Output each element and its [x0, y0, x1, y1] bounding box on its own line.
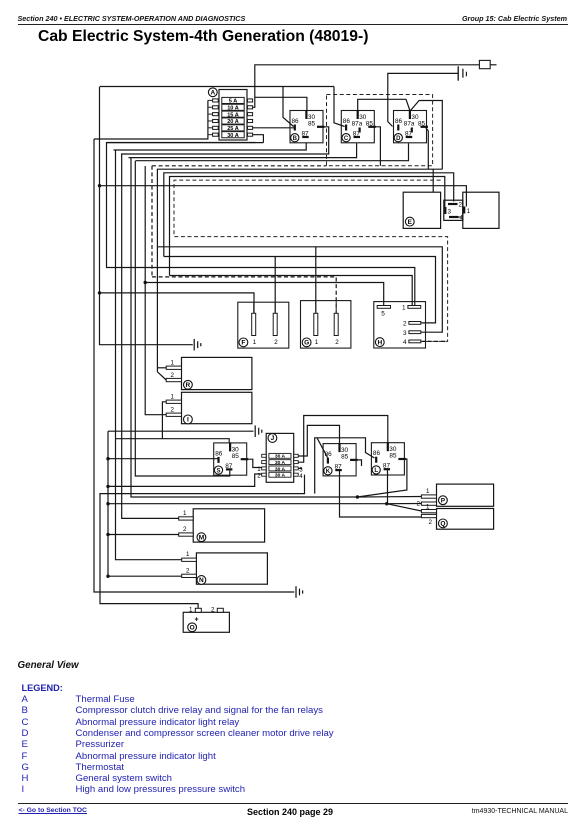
wire relay K 85 stub [354, 460, 362, 466]
wire relay S 85 to fuse J [246, 459, 262, 467]
wire fuse J row1 to relay K 30 [298, 425, 339, 456]
wire node to pressurizer pin 1 [100, 186, 467, 207]
junction switch H pin 5 feed [144, 281, 147, 284]
svg-text:O: O [190, 625, 195, 632]
wire bus v7b to pressure switch I pin 2 [145, 166, 166, 415]
wire I pin 1 to relay S 30 line [162, 402, 166, 439]
svg-text:85: 85 [308, 121, 316, 128]
wire R pin 2 diagonal [157, 372, 166, 380]
svg-text:2: 2 [274, 339, 278, 346]
junction on rail to pin 1 [98, 184, 101, 187]
svg-text:G: G [304, 340, 309, 347]
wire top rail to relay coils [100, 86, 334, 88]
wire loop v9 pressurizer pin 2 and H2 [164, 173, 454, 257]
wire bus v3b common [108, 431, 182, 576]
svg-text:I: I [187, 417, 189, 424]
relay S [214, 442, 249, 475]
svg-text:3: 3 [403, 330, 407, 337]
relay C [341, 110, 376, 143]
svg-text:30 A: 30 A [275, 466, 286, 472]
node label Q [439, 519, 448, 528]
svg-text:1: 1 [253, 339, 257, 346]
wire relay K 87 to Q2 [340, 470, 422, 517]
svg-text:1: 1 [189, 607, 193, 614]
node label P [439, 496, 448, 505]
svg-text:1: 1 [171, 394, 175, 401]
svg-text:85: 85 [389, 453, 397, 460]
wire relay B 87 output [114, 143, 307, 150]
wire feed H pin 3 [157, 247, 442, 332]
wire battery lower feed [388, 73, 458, 126]
wire fuse J row4 left [108, 474, 262, 486]
resistor unit I [182, 392, 252, 423]
relay K [323, 443, 358, 476]
svg-text:25 A: 25 A [227, 126, 239, 132]
wire bus vO fuse J row4 to battery O [100, 475, 305, 609]
svg-text:2: 2 [183, 526, 187, 533]
junction P feed [356, 495, 359, 498]
wire relay L 87 drop [387, 470, 389, 504]
svg-text:2: 2 [335, 339, 339, 346]
svg-text:2: 2 [403, 321, 407, 328]
svg-text:30 A: 30 A [275, 454, 286, 460]
svg-text:87: 87 [302, 131, 310, 138]
wire relay C 87 output [129, 143, 357, 157]
svg-text:3: 3 [448, 209, 452, 216]
svg-text:87a: 87a [404, 121, 415, 128]
svg-text:2: 2 [459, 202, 463, 209]
pressurizer E connector [444, 200, 463, 220]
resistor unit R [182, 357, 252, 389]
wire loop v10 pressurizer pin 3 and H1 [170, 177, 445, 276]
svg-text:20 A: 20 A [227, 119, 239, 125]
fan motor M [193, 509, 264, 542]
svg-text:+: + [195, 617, 199, 624]
svg-text:30 A: 30 A [275, 473, 286, 479]
svg-text:85: 85 [366, 121, 374, 128]
svg-text:15 A: 15 A [227, 112, 239, 118]
node label G [302, 338, 311, 347]
svg-text:30 A: 30 A [275, 460, 286, 466]
wire harness dashed segment to C D box [152, 165, 327, 167]
wire feed H pin 2 [164, 257, 436, 323]
pressurizer E housing [403, 192, 440, 228]
svg-text:Q: Q [440, 521, 445, 528]
wire common to Q [108, 504, 421, 511]
thermostat G [301, 301, 351, 349]
svg-text:C: C [344, 136, 349, 142]
svg-text:4: 4 [403, 339, 407, 346]
relay B [290, 110, 325, 143]
svg-text:P: P [441, 497, 446, 504]
indicator light F [238, 302, 289, 348]
svg-text:86: 86 [292, 118, 300, 125]
wire K L coil feed [315, 438, 375, 494]
dashed harness box around relays C and D [327, 95, 433, 166]
svg-text:87: 87 [383, 463, 391, 470]
pins of P [417, 488, 437, 507]
wire bus v7 to relay S 87 [135, 161, 230, 476]
svg-text:D: D [396, 136, 401, 142]
wire R pin 1 [157, 367, 166, 369]
svg-text:S: S [216, 468, 220, 474]
ground by relay S [255, 425, 262, 437]
wire fuse J row3 right stub [298, 467, 302, 469]
wire relay S 30 feed line [116, 439, 230, 443]
svg-text:1: 1 [467, 208, 471, 215]
svg-text:2: 2 [171, 407, 175, 414]
svg-text:87a: 87a [352, 121, 363, 128]
svg-text:85: 85 [418, 121, 426, 128]
fuse box J [257, 433, 303, 482]
junction N pin 2 [106, 575, 109, 578]
svg-text:1: 1 [171, 360, 175, 367]
svg-text:86: 86 [343, 118, 351, 125]
svg-text:2: 2 [186, 567, 190, 574]
node label J [268, 434, 277, 443]
svg-text:L: L [374, 468, 378, 474]
general system switch H [374, 302, 426, 348]
junction common bus P [106, 502, 109, 505]
junction F feed [98, 291, 101, 294]
svg-text:1: 1 [183, 510, 187, 517]
node label O [188, 623, 197, 632]
svg-text:2: 2 [171, 372, 175, 379]
wire ground line of I [108, 430, 254, 432]
connector P body [437, 484, 494, 506]
svg-text:4: 4 [460, 215, 464, 222]
fan motor N [196, 553, 267, 584]
inner dashed harness boundary [174, 180, 448, 341]
node label M [197, 533, 206, 542]
wire harness dashed left drop [151, 166, 153, 277]
svg-text:2: 2 [211, 607, 215, 614]
wire fuse J row2 to relay L 30 [298, 416, 388, 463]
wire relay D 85 output [425, 127, 428, 169]
node label N [197, 576, 206, 585]
wire fuse box A left bus [94, 100, 208, 139]
wire feed G element 1 [315, 247, 317, 314]
junction M pin 2 [106, 533, 109, 536]
wire relay B 30 feed [255, 97, 307, 110]
pins of Q [421, 503, 436, 526]
wire bus v6 to connector P line [131, 158, 357, 497]
wire relay C coil feed [334, 87, 345, 127]
svg-text:86: 86 [215, 450, 223, 457]
wire fuse box A output bus [107, 142, 256, 144]
svg-text:2: 2 [429, 519, 433, 526]
wire bus v5 to fan motor M pin 1 [122, 154, 179, 518]
svg-text:R: R [186, 382, 191, 389]
wire relay C and D 30 feed [358, 99, 410, 110]
svg-text:N: N [199, 577, 204, 584]
wire bus v4 to fan motor N pin 1 [116, 150, 182, 560]
wire feed F element 2 [274, 257, 276, 315]
wire bus v1 to cab ground [94, 139, 294, 592]
node label H [375, 338, 384, 347]
wire to connector P pin 1 [357, 496, 421, 499]
svg-text:10 A: 10 A [227, 105, 239, 111]
wire relay S 86 feed [108, 458, 219, 460]
wire feed H pin 5 [145, 283, 384, 306]
pressurizer E switch body [463, 192, 499, 228]
wire relay B 85 output [121, 127, 329, 154]
wire relay B coil feed [283, 87, 294, 127]
junction J row4 [106, 485, 109, 488]
battery BAT1 [458, 66, 466, 80]
svg-text:K: K [326, 469, 331, 475]
wire feed F element 1 [100, 293, 255, 314]
svg-text:1: 1 [186, 551, 190, 558]
wire harness dashed bottom to thermostat [152, 277, 336, 314]
svg-text:J: J [271, 435, 275, 442]
ground cab main [296, 586, 303, 598]
svg-text:85: 85 [341, 454, 349, 461]
svg-text:1: 1 [315, 339, 319, 346]
wire H pin 4 dashed [421, 340, 447, 342]
wire drop to pressurizer housing [432, 169, 434, 192]
relay L [371, 442, 406, 475]
svg-text:2: 2 [417, 500, 421, 507]
svg-text:86: 86 [395, 118, 403, 125]
node label E [405, 217, 414, 226]
svg-text:1: 1 [426, 503, 430, 510]
svg-text:4: 4 [299, 473, 303, 480]
fuse F main on battery rail [479, 60, 490, 68]
connector Q body [437, 509, 494, 530]
svg-text:1: 1 [426, 488, 430, 495]
wire battery rail after fuse [490, 64, 496, 66]
svg-text:5 A: 5 A [229, 99, 238, 105]
svg-text:A: A [210, 90, 215, 97]
wire loop v8 to pressurizer housing and R1 [157, 169, 442, 372]
svg-text:1: 1 [402, 305, 406, 312]
wire M pin 2 tap [108, 534, 179, 536]
svg-text:H: H [377, 339, 382, 346]
svg-text:86: 86 [373, 450, 381, 457]
junction Q feed [385, 502, 388, 505]
pins of N [182, 551, 197, 577]
svg-text:87: 87 [225, 463, 233, 470]
wire to connector P pin 2 [387, 503, 422, 505]
pins of M [179, 510, 194, 536]
svg-text:B: B [293, 136, 298, 142]
svg-text:M: M [199, 534, 204, 541]
wire relay D 87 output [136, 143, 409, 160]
relay D [394, 110, 429, 143]
wire fuse A row6 output hook [253, 135, 264, 143]
pins of R and I [166, 360, 181, 417]
svg-text:30 A: 30 A [227, 133, 239, 139]
node label A [208, 88, 217, 97]
wire relay C 85 output [373, 127, 380, 166]
svg-text:87: 87 [335, 464, 343, 471]
wire feed H pin 1b [170, 276, 413, 306]
node label F [239, 338, 248, 347]
wire bus v2 to component ground [100, 87, 193, 345]
wire relay L 85 to P line [357, 459, 407, 497]
battery O [183, 607, 229, 633]
svg-text:85: 85 [232, 453, 240, 460]
node label R [184, 380, 193, 389]
wire battery positive rail [252, 65, 480, 108]
wire relay D 30 right branch [411, 101, 443, 170]
wire relay K 86 feed [317, 438, 328, 458]
svg-text:F: F [241, 340, 245, 347]
svg-text:5: 5 [381, 311, 385, 318]
pressurizer pins 1 2 3 4 [445, 202, 471, 222]
junction S 86 [106, 457, 109, 460]
svg-text:E: E [408, 219, 413, 226]
wire bus v3 to switch H pin 1 [107, 143, 415, 305]
ground of relay feeds [194, 339, 201, 351]
fuse box A [208, 90, 253, 141]
node label I [184, 415, 193, 424]
wire fuse A row5 to relay B 86 [253, 127, 295, 129]
